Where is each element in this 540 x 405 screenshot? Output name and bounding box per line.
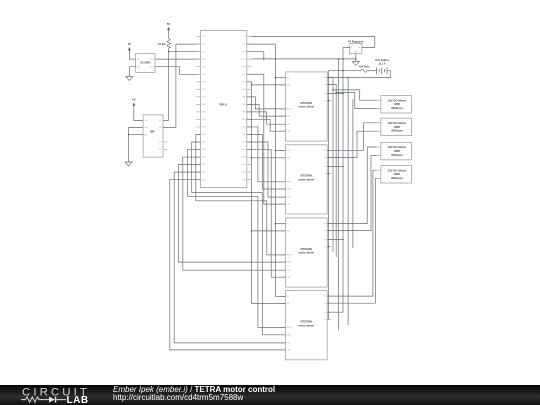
pin stub U1 right pin 26 — [247, 73, 251, 75]
pin stub M3 terminal 1 — [377, 146, 381, 148]
wire driver3 M- to motor3 — [327, 155, 377, 230]
pin stub M4 terminal 1 — [377, 169, 381, 171]
node elbow join — [263, 58, 265, 60]
svg-text:GP21: GP21 — [242, 164, 246, 166]
svg-text:RPi 3: RPi 3 — [219, 102, 227, 106]
pin stub U5 right B+ — [327, 93, 331, 95]
svg-text:R_EN: R_EN — [287, 270, 291, 272]
pin stub U7 right B- — [327, 246, 331, 248]
svg-text:+: + — [382, 122, 383, 124]
voltage regulator U2 5V Regulator — [350, 44, 362, 54]
pin stub U6 left VCC — [281, 150, 285, 152]
wire driver2 B- to return rail — [327, 173, 328, 175]
wire R1 to SCL net down to IMU — [163, 48, 169, 120]
motor driver U8 BTS7960 — [285, 291, 327, 360]
pin stub U1 left pin 1 — [196, 36, 200, 38]
svg-text:GP19: GP19 — [202, 127, 206, 129]
wire RPi to driver2 RPWM — [247, 127, 286, 182]
svg-text:3.3V: 3.3V — [202, 36, 205, 38]
pin stub U8 left GND — [281, 303, 285, 305]
svg-text:IN: IN — [351, 47, 352, 49]
pin stub U8 left LPWM — [281, 334, 285, 336]
wire RPi to driver2 L_EN — [247, 74, 286, 204]
microcontroller U1 RPi 3 — [201, 31, 247, 188]
wire driver3 M+ to motor3 — [327, 147, 377, 223]
svg-text:3500rpm: 3500rpm — [391, 106, 403, 110]
svg-text:GND: GND — [287, 157, 290, 159]
wire 5V tap driver4 VCC — [275, 295, 285, 297]
svg-text:BTS7960: BTS7960 — [301, 174, 313, 178]
svg-text:SCL: SCL — [202, 51, 205, 53]
wire RPi left to driver3 RPWM — [196, 134, 286, 254]
pin stub U1 left pin 18 — [196, 164, 200, 166]
svg-text:5V: 5V — [132, 97, 136, 101]
pin stub U8 left R_EN — [281, 342, 285, 344]
pin stub U1 left pin 2 — [196, 43, 200, 45]
svg-text:GP04: GP04 — [202, 74, 206, 76]
svg-text:L_EN: L_EN — [286, 131, 290, 133]
pin stub M4 terminal 2 — [377, 178, 381, 180]
wire 5V to IMU VCC — [134, 110, 143, 121]
pin stub U8 left RPWM — [281, 327, 285, 329]
ground for IMU — [125, 162, 132, 166]
svg-text:−: − — [382, 131, 383, 133]
pin stub IMU INT — [163, 141, 167, 143]
wire driver4 M- to motor4 — [327, 179, 377, 304]
wire spare vertical drop from gnd net — [337, 59, 339, 330]
wire driver2 M- to motor2 — [327, 131, 377, 157]
svg-text:GP14: GP14 — [242, 51, 246, 53]
svg-text:10 kΩ: 10 kΩ — [158, 42, 166, 46]
svg-text:+: + — [382, 100, 383, 102]
wire battery plus rail down — [342, 47, 344, 312]
wire driver2 B+ to battery rail — [327, 165, 343, 167]
svg-text:R_EN: R_EN — [287, 343, 291, 345]
pin stub U6 right B+ — [327, 165, 331, 167]
wire driver4 B+ to battery rail — [327, 311, 343, 313]
wire TRIG to RPi — [155, 58, 201, 60]
ground for regulator — [352, 62, 359, 66]
svg-text:R_EN: R_EN — [287, 197, 291, 199]
node gnd crossing battery rail — [342, 58, 344, 60]
svg-text:HC-SR04: HC-SR04 — [140, 61, 151, 64]
motor M1 12V DC — [381, 96, 412, 113]
pin stub M3 terminal 2 — [377, 154, 381, 156]
wire RPi row3 elbow — [247, 52, 264, 59]
svg-text:BTS7960: BTS7960 — [301, 320, 313, 324]
svg-text:5V: 5V — [167, 22, 171, 26]
svg-text:motor driver: motor driver — [298, 323, 314, 327]
wire RPi left to driver4 RPWM — [187, 150, 285, 328]
svg-text:GP13: GP13 — [202, 119, 206, 121]
svg-text:VCC: VCC — [287, 77, 290, 79]
wire SCL to RPi — [169, 51, 201, 53]
wire gnd tap driver3 GND — [252, 230, 286, 232]
pin stub U8 right B+ — [327, 311, 331, 313]
pin stub M2 terminal 1 — [377, 122, 381, 124]
pin stub U1 left pin 7 — [196, 81, 200, 83]
pin stub M2 terminal 2 — [377, 130, 381, 132]
svg-text:11.1 V: 11.1 V — [379, 63, 386, 66]
svg-text:GP24: GP24 — [242, 89, 246, 91]
wire IMU AD0 — [129, 134, 144, 136]
svg-text:3500rpm: 3500rpm — [391, 176, 403, 180]
svg-text:GP08: GP08 — [242, 112, 246, 114]
pin stub U1 left pin 13 — [196, 126, 200, 128]
svg-text:VCC: VCC — [287, 150, 290, 152]
svg-text:GP20: GP20 — [242, 157, 246, 159]
pin stub U1 right pin 28 — [247, 88, 251, 90]
pin stub U5 left L_EN — [281, 130, 285, 132]
pin stub U1 right pin 33 — [247, 126, 251, 128]
svg-text:B+: B+ — [324, 312, 326, 314]
node gnd at 5V rail crossing — [275, 58, 277, 60]
wire GND rail from RPi to driver GND pins — [247, 82, 252, 304]
pin stub U1 left pin 14 — [196, 133, 200, 135]
pin stub U1 left pin 17 — [196, 156, 200, 158]
wire IMU SDA to RPi 5V0 row — [163, 44, 201, 127]
wire 5V tap driver1 VCC — [275, 77, 285, 79]
svg-text:IMU: IMU — [150, 130, 155, 133]
pin stub U8 left L_EN — [281, 349, 285, 351]
svg-text:GP23: GP23 — [242, 81, 246, 83]
pin stub U5 left R_EN — [281, 123, 285, 125]
pin stub U1 right pin 30 — [247, 103, 251, 105]
svg-text:GP01: GP01 — [242, 127, 246, 129]
pin stub U6 right M- — [327, 156, 331, 158]
CircuitLab logo — [13, 385, 118, 405]
pin stub U1 right pin 37 — [247, 156, 251, 158]
svg-text:GP07: GP07 — [242, 119, 246, 121]
pin stub U6 left GND — [281, 157, 285, 159]
svg-text:+: + — [382, 147, 383, 149]
pin stub U8 left VCC — [281, 295, 285, 297]
pin stub U1 right pin 23 — [247, 51, 251, 53]
svg-text:−: − — [382, 108, 383, 110]
pin stub U1 right pin 34 — [247, 133, 251, 135]
pin stub U1 right pin 27 — [247, 81, 251, 83]
footer bar — [0, 385, 540, 405]
svg-text:GND: GND — [287, 303, 290, 305]
pin stub U1 right pin 32 — [247, 118, 251, 120]
pin stub U6 right M+ — [327, 149, 331, 151]
wire down to ground — [128, 135, 130, 163]
pin stub U7 left GND — [281, 230, 285, 232]
pin stub U1 right pin 25 — [247, 66, 251, 68]
svg-text:B+: B+ — [324, 93, 326, 95]
wire RPi left to driver4 L_EN — [170, 180, 286, 350]
pin stub U1 right pin 24 — [247, 58, 251, 60]
svg-text:GND: GND — [354, 52, 357, 54]
wire spare vertical from return — [347, 78, 349, 326]
wire driver4 M+ to motor4 — [327, 170, 377, 296]
motor M2 12V DC — [381, 118, 412, 135]
svg-text:M+: M+ — [324, 150, 326, 152]
wire RPi to driver1 L_EN — [247, 119, 286, 131]
svg-text:GP15: GP15 — [242, 59, 246, 61]
pin stub U5 right M+ — [327, 76, 331, 78]
pin stub U1 right pin 40 — [247, 179, 251, 181]
wire driver3 B- to return rail — [327, 246, 328, 248]
svg-text:5V: 5V — [244, 36, 246, 38]
pin stub U1 left pin 5 — [196, 66, 200, 68]
node return rail join — [328, 77, 330, 79]
pin stub U1 right pin 38 — [247, 164, 251, 166]
pin stub U7 left LPWM — [281, 261, 285, 263]
pin stub U1 left pin 20 — [196, 179, 200, 181]
svg-text:GP22: GP22 — [202, 96, 206, 98]
svg-text:−: − — [382, 155, 383, 157]
wire battery return rail down — [328, 71, 330, 320]
svg-text:L_EN: L_EN — [286, 204, 290, 206]
pin stub U6 left LPWM — [281, 188, 285, 190]
wire gnd tap driver1 GND — [252, 84, 286, 86]
svg-text:GP12: GP12 — [202, 142, 206, 144]
wire gnd tap driver4 GND — [252, 303, 286, 305]
pin stub U1 right pin 35 — [247, 141, 251, 143]
pin stub U1 left pin 6 — [196, 73, 200, 75]
wire gnd tap driver2 GND — [252, 157, 286, 159]
wire RPi to driver2 R_EN — [247, 142, 286, 197]
wire 5V to HC-SR04 VCC — [129, 54, 135, 59]
wire ECHO to RPi — [155, 67, 201, 75]
svg-text:M+: M+ — [324, 77, 326, 79]
wire driver4 B- to return rail — [327, 318, 328, 320]
pin stub M1 terminal 1 — [377, 99, 381, 101]
svg-text:VCC: VCC — [287, 296, 290, 298]
wire bundle continuation col B — [335, 92, 337, 257]
svg-text:BTS7960: BTS7960 — [301, 247, 313, 251]
wire driver3 B+ to battery rail — [327, 239, 343, 241]
svg-text:GP25: GP25 — [242, 104, 246, 106]
svg-text:5V Regulator: 5V Regulator — [348, 40, 363, 43]
motor M4 12V DC — [381, 166, 412, 183]
svg-text:BTS7960: BTS7960 — [301, 101, 313, 105]
svg-text:GP16: GP16 — [242, 149, 246, 151]
svg-text:INT: INT — [159, 142, 162, 144]
pin stub U5 left VCC — [281, 77, 285, 79]
svg-text:GND: GND — [287, 85, 290, 87]
svg-text:B+: B+ — [324, 166, 326, 168]
wire RPi left to driver4 R_EN — [174, 172, 285, 343]
wire 5V tap driver2 VCC — [275, 150, 285, 152]
pin stub U6 left L_EN — [281, 203, 285, 205]
pin stub U1 left pin 12 — [196, 118, 200, 120]
pin stub U1 right pin 29 — [247, 96, 251, 98]
svg-text:5V: 5V — [128, 42, 132, 46]
node gnd at regulator — [355, 58, 357, 60]
resistor R1 10 kOhm — [168, 34, 170, 39]
svg-text:3500rpm: 3500rpm — [391, 129, 403, 133]
pin stub U7 left R_EN — [281, 269, 285, 271]
pin stub U1 right pin 31 — [247, 111, 251, 113]
svg-text:L_EN: L_EN — [286, 277, 290, 279]
svg-text:GP26: GP26 — [202, 134, 206, 136]
wire RPi to driver1 R_EN — [247, 112, 286, 124]
wire battery return loop — [329, 71, 391, 78]
pin stub U5 left RPWM — [281, 108, 285, 110]
svg-text:GP12: GP12 — [242, 142, 246, 144]
svg-text:GP23: GP23 — [202, 172, 206, 174]
pin stub U5 left GND — [281, 84, 285, 86]
pin stub U1 left pin 16 — [196, 149, 200, 151]
pin stub U1 right pin 39 — [247, 171, 251, 173]
wire RPi left to driver3 LPWM — [178, 165, 285, 262]
motor driver U6 BTS7960 — [285, 145, 327, 214]
wire RPi left to driver3 R_EN — [183, 157, 286, 270]
IMU sensor U4 — [143, 115, 163, 157]
wire driver2 M+ to motor2 — [327, 123, 377, 151]
motor M3 12V DC — [381, 142, 412, 159]
ground for HC-SR04 — [126, 77, 133, 81]
pin stub U7 right M- — [327, 230, 331, 232]
pin stub U7 right B+ — [327, 239, 331, 241]
motor driver U5 BTS7960 — [285, 72, 327, 141]
pin stub U7 left VCC — [281, 223, 285, 225]
pin stub U5 left LPWM — [281, 115, 285, 117]
svg-text:GP05: GP05 — [202, 104, 206, 106]
wire bundle continuation col C — [352, 99, 354, 248]
pin stub U1 right pin 21 — [247, 36, 251, 38]
node SCL junction — [168, 51, 170, 53]
pin stub U8 right B- — [327, 318, 331, 320]
svg-text:40A Fuse: 40A Fuse — [359, 66, 370, 69]
wire 5V rail from RPi to driver VCC pins — [247, 44, 276, 296]
wire bundle continuation col A — [332, 90, 334, 252]
svg-text:GND: GND — [287, 231, 290, 233]
svg-text:motor driver: motor driver — [298, 251, 314, 255]
svg-text:B+: B+ — [324, 239, 326, 241]
svg-text:FSY: FSY — [159, 149, 162, 151]
pin stub U1 left pin 9 — [196, 96, 200, 98]
ultrasonic sensor U3 HC-SR04 — [136, 54, 155, 73]
svg-text:R_EN: R_EN — [287, 124, 291, 126]
pin stub U6 left RPWM — [281, 181, 285, 183]
svg-text:GP19: GP19 — [242, 172, 246, 174]
pin stub U7 left L_EN — [281, 276, 285, 278]
wire HC-SR04 GND — [129, 67, 135, 77]
pin stub U1 left pin 11 — [196, 111, 200, 113]
svg-text:LAB: LAB — [67, 395, 89, 405]
pin stub U1 left pin 4 — [196, 58, 200, 60]
svg-text:5V0: 5V0 — [202, 44, 205, 46]
pin stub U8 right M+ — [327, 295, 331, 297]
svg-text:motor driver: motor driver — [298, 178, 314, 182]
svg-text:+: + — [382, 170, 383, 172]
pin stub M1 terminal 2 — [377, 108, 381, 110]
svg-text:L_EN: L_EN — [286, 350, 290, 352]
wire RPi to driver1 RPWM — [247, 97, 286, 109]
wire RPi to driver1 LPWM — [247, 104, 286, 116]
pin stub U5 right B- — [327, 100, 331, 102]
wire battery feed line — [329, 70, 360, 72]
pin stub U1 left pin 10 — [196, 103, 200, 105]
svg-text:3500rpm: 3500rpm — [391, 153, 403, 157]
svg-text:OUT: OUT — [358, 47, 361, 49]
pin stub U6 right B- — [327, 173, 331, 175]
pin stub U8 right M- — [327, 302, 331, 304]
svg-text:GP18: GP18 — [242, 66, 246, 68]
svg-text:GP16: GP16 — [202, 149, 206, 151]
svg-text:M+: M+ — [324, 223, 326, 225]
wire regulator input from battery rail — [343, 46, 350, 48]
motor driver U7 BTS7960 — [285, 218, 327, 287]
svg-text:−: − — [382, 178, 383, 180]
pin stub U1 right pin 36 — [247, 149, 251, 151]
node battery rail tap — [342, 70, 344, 72]
pin stub U1 right pin 22 — [247, 43, 251, 45]
wire IMU GND — [129, 127, 144, 134]
svg-text:SCL: SCL — [159, 120, 162, 122]
pin stub U7 right M+ — [327, 222, 331, 224]
svg-text:GP27: GP27 — [202, 89, 206, 91]
wire 5V tap driver3 VCC — [275, 223, 285, 225]
svg-text:GP17: GP17 — [202, 81, 206, 83]
wire driver1 B+ to battery rail — [327, 93, 343, 95]
wire driver1 B- to return rail — [327, 100, 328, 102]
node IMU gnd junction — [128, 134, 130, 136]
pin stub U1 left pin 8 — [196, 88, 200, 90]
svg-text:M+: M+ — [324, 296, 326, 298]
wire regulator output up to RPi 5V pin — [251, 37, 375, 48]
wire driver1 M+ to motor1 — [327, 77, 377, 100]
pin stub U1 left pin 15 — [196, 141, 200, 143]
svg-text:GP06: GP06 — [202, 112, 206, 114]
pin stub U1 left pin 19 — [196, 171, 200, 173]
wire GND net from RPi to regulator ground — [251, 58, 356, 60]
pin stub U5 right M- — [327, 84, 331, 86]
svg-text:GP21: GP21 — [202, 164, 206, 166]
wire RPi to driver3 L_EN — [247, 150, 286, 278]
pin stub IMU FSYNC — [163, 148, 167, 150]
wire regulator GND down — [355, 54, 357, 62]
pin stub U1 left pin 3 — [196, 51, 200, 53]
wire driver1 M- to motor1 — [327, 85, 377, 109]
wire RPi to driver2 LPWM — [247, 134, 286, 189]
wire RPi left to driver4 LPWM — [192, 142, 286, 335]
svg-text:motor driver: motor driver — [298, 105, 314, 109]
svg-text:VCC: VCC — [287, 223, 290, 225]
pin stub U6 left R_EN — [281, 196, 285, 198]
pin stub U7 left RPWM — [281, 254, 285, 256]
svg-text:GP20: GP20 — [202, 157, 206, 159]
